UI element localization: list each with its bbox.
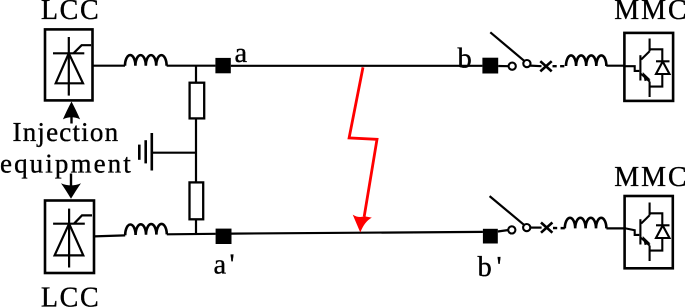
- inductor L3: [125, 224, 167, 235]
- fault cross marker X2: [541, 223, 552, 233]
- breaker S2 blade: [490, 196, 525, 225]
- svg-text:LCC: LCC: [41, 283, 101, 308]
- wire S2 to fault marker X2: [530, 227, 542, 229]
- svg-text:MMC: MMC: [614, 0, 685, 26]
- svg-text:a: a: [235, 38, 248, 69]
- breaker S1 hinge circle: [509, 63, 516, 70]
- IGBT with diode inside MMC1: [626, 39, 670, 98]
- wire R1 to R2: [195, 118, 197, 182]
- wire junction J1 down to resistor R1: [195, 66, 197, 83]
- svg-text:': ': [230, 250, 235, 281]
- svg-text:b: b: [478, 252, 492, 283]
- dashed wire X2 to inductor L4: [553, 227, 565, 230]
- arrow up into LCC1 (injection feed): [63, 102, 80, 124]
- converter MMC1 box: [624, 33, 673, 101]
- dashed wire X1 to inductor L2: [553, 65, 567, 67]
- resistor R1: [190, 83, 205, 119]
- inductor L1: [125, 55, 167, 66]
- breaker S2 hinge circle: [508, 226, 515, 233]
- svg-text:equipment: equipment: [0, 149, 133, 179]
- node a junction square: [215, 58, 230, 73]
- resistor R2: [190, 182, 204, 219]
- wire L3 to junction J2: [167, 233, 216, 236]
- breaker S1 pole circle: [523, 60, 530, 67]
- IGBT with diode inside MMC2: [626, 203, 670, 262]
- svg-text:b: b: [458, 44, 472, 75]
- wire LCC2 output to inductor L3: [94, 235, 125, 236]
- wire L2 to MMC1: [606, 65, 625, 67]
- wire R2 to junction J2: [195, 219, 197, 234]
- wire node b' to breaker S2: [498, 230, 509, 232]
- fault lightning bolt (red): [349, 67, 377, 216]
- svg-text:Injection: Injection: [13, 117, 120, 147]
- fault cross marker X1: [540, 61, 551, 71]
- breaker S1 blade: [490, 32, 524, 61]
- wire node a to node b (positive pole line): [231, 65, 483, 67]
- wire S1 to fault marker: [530, 64, 541, 67]
- wire LCC1 output to inductor L1: [93, 65, 126, 67]
- wire node a' to node b' (negative pole line): [232, 232, 483, 234]
- thyristor V1 inside LCC1: [53, 37, 91, 96]
- converter LCC2 box: [45, 201, 94, 274]
- thyristor V2 inside LCC2: [53, 209, 92, 268]
- breaker S2 pole circle: [523, 224, 530, 231]
- ground symbol: [139, 133, 152, 171]
- wire midpoint to ground: [152, 152, 196, 154]
- wire L4 to MMC2: [606, 227, 626, 229]
- node b' junction square: [483, 229, 498, 244]
- converter MMC2 box: [625, 196, 673, 268]
- arrow down into LCC2 (injection feed): [61, 174, 81, 199]
- wire node b to breaker S1: [498, 65, 509, 67]
- svg-text:': ': [497, 252, 502, 283]
- converter LCC1 box: [45, 29, 93, 100]
- node a' junction square: [216, 229, 232, 244]
- svg-text:a: a: [214, 250, 227, 281]
- inductor L2: [566, 55, 606, 66]
- svg-text:MMC: MMC: [614, 162, 685, 193]
- wire L1 to junction J1: [167, 65, 216, 67]
- node b junction square: [482, 58, 498, 74]
- inductor L4: [565, 218, 607, 229]
- fault arrowhead (red): [353, 215, 372, 233]
- svg-text:LCC: LCC: [41, 0, 101, 26]
